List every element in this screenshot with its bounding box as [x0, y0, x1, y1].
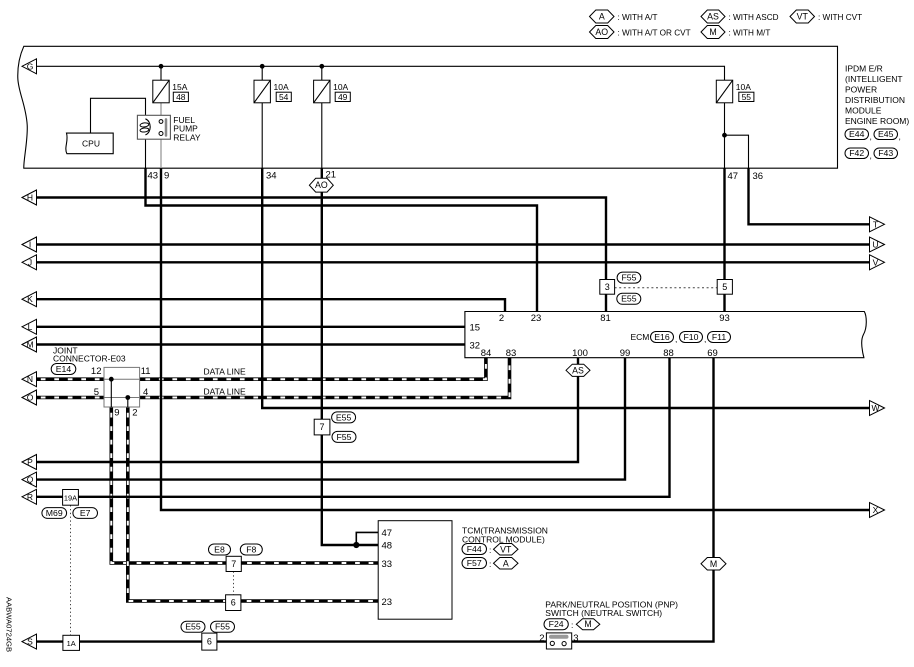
TCM pin 48 label: [382, 540, 393, 551]
splice box 6 on S wire: [202, 633, 217, 650]
wire IPDM internal bus from G arrow to fuse 55: [35, 66, 725, 80]
wire bus to fuse 49: [321, 66, 323, 80]
fuse 10A 54: [254, 80, 289, 103]
wire bus to fuse 54: [261, 66, 263, 80]
svg-text:VT: VT: [500, 544, 512, 554]
connector E14: [51, 364, 76, 375]
svg-text:K: K: [27, 294, 33, 304]
node G arrow: [22, 59, 37, 74]
wire arrow H to ECM pin 81: [35, 198, 606, 312]
condition tag AO on pin 21 wire: [309, 178, 333, 192]
node V arrow: [870, 255, 885, 270]
node R arrow: [22, 489, 37, 504]
svg-text:6: 6: [231, 598, 236, 608]
svg-text:A: A: [599, 12, 605, 22]
svg-text:84: 84: [481, 348, 492, 359]
svg-text:A: A: [503, 558, 509, 568]
wire relay coil to pin 43: [145, 135, 147, 169]
svg-text:81: 81: [600, 313, 611, 324]
legend tag AO: [590, 26, 615, 39]
svg-text:55: 55: [742, 92, 752, 102]
pin 34 label: [266, 171, 277, 182]
svg-text:X: X: [873, 505, 879, 515]
PNP switch symbol: [546, 633, 571, 649]
splice box 5: [717, 280, 732, 295]
colon after F57: [489, 559, 491, 569]
wire ECM pin 100 to arrow P: [35, 358, 578, 462]
svg-text:E55: E55: [185, 622, 201, 632]
svg-text:F11: F11: [712, 332, 726, 342]
node L arrow: [22, 319, 37, 334]
ECM pin 99 label: [620, 348, 631, 359]
connector E7: [73, 508, 98, 519]
legend tag AS: [701, 10, 725, 23]
wire ECM pin 69 to PNP switch pin 3: [572, 358, 714, 642]
svg-text:E16: E16: [654, 332, 670, 342]
condition tag M in PNP label: [576, 619, 600, 630]
connector F57: [462, 558, 487, 569]
svg-text:9: 9: [164, 171, 169, 182]
PNP switch pin 2 label: [539, 633, 544, 644]
wire fuse 49 to pin 21: [321, 103, 323, 168]
svg-text:9: 9: [114, 408, 119, 419]
wire arrow L to ECM pin 15: [35, 326, 465, 328]
node J arrow: [22, 255, 37, 270]
wire arrow K to ECM pin 2: [35, 299, 505, 311]
comma after E45: [899, 132, 901, 142]
svg-text:M: M: [26, 340, 33, 350]
svg-text:CONNECTOR-E03: CONNECTOR-E03: [53, 354, 126, 364]
pin 9 label: [164, 171, 169, 182]
legend text WITH A/T: [618, 13, 658, 22]
svg-text:M: M: [584, 619, 591, 629]
junction fuse 55 branch: [722, 133, 727, 138]
CPU box: [66, 133, 113, 154]
svg-text:32: 32: [470, 341, 481, 352]
svg-text:,: ,: [870, 151, 872, 161]
svg-text:F10: F10: [684, 332, 699, 342]
ECM pin 15 label: [470, 323, 481, 334]
svg-text:48: 48: [382, 540, 393, 551]
wire joint connector pin 2 to TCM pin 23: [128, 407, 226, 601]
wire ECM pin 88 to arrow R: [35, 358, 670, 497]
svg-text:7: 7: [231, 559, 236, 569]
svg-text:: WITH CVT: : WITH CVT: [818, 13, 862, 22]
diagram code AABWA0724GB: [5, 597, 14, 652]
svg-text:E55: E55: [336, 412, 352, 422]
svg-text:,: ,: [870, 132, 872, 142]
connector F55 above box 3: [617, 272, 641, 283]
ECM pin 83 label: [506, 348, 517, 359]
node K arrow: [22, 292, 37, 307]
svg-text:43: 43: [148, 171, 159, 182]
svg-text:DISTRIBUTION: DISTRIBUTION: [845, 95, 905, 105]
joint connector pin 12 label: [91, 366, 102, 377]
legend text WITH A/T OR CVT: [618, 28, 691, 37]
svg-text:10A: 10A: [333, 82, 348, 92]
wire ECM pin 99 to arrow Q: [35, 358, 625, 480]
DATA LINE label lower: [204, 386, 247, 396]
joint connector pin 2 label: [132, 408, 137, 419]
svg-text:CPU: CPU: [82, 139, 100, 149]
junction on bus at fuse 49: [319, 64, 324, 69]
svg-text:IPDM E/R: IPDM E/R: [845, 64, 883, 74]
svg-text:1A: 1A: [67, 639, 76, 648]
svg-text:48: 48: [176, 92, 186, 102]
svg-text:V: V: [873, 257, 879, 267]
svg-text:49: 49: [338, 92, 348, 102]
svg-text:: WITH A/T: : WITH A/T: [618, 13, 658, 22]
svg-text:E8: E8: [214, 544, 225, 554]
svg-text:,: ,: [704, 334, 706, 344]
fuse 10A number box 55: [739, 92, 754, 102]
TCM module box: [378, 521, 452, 620]
ECM pin 100 label: [572, 348, 588, 359]
wire IPDM pin 36 to arrow T: [749, 168, 871, 224]
condition tag M on pin 69 wire: [701, 558, 726, 571]
svg-text::: :: [489, 559, 491, 569]
wire joint connector pin 4 to pin 2 internal: [127, 398, 129, 408]
svg-text:: WITH A/T OR CVT: : WITH A/T OR CVT: [618, 28, 691, 37]
dotted link 19A to 1A: [70, 505, 72, 635]
svg-text:MODULE: MODULE: [845, 106, 882, 116]
colon after F44: [489, 545, 491, 555]
wire DATA LINE from arrow O to joint connector: [35, 396, 104, 400]
svg-text:36: 36: [753, 171, 764, 182]
node X arrow: [870, 503, 885, 518]
dotted link box 3 to box 5: [615, 287, 718, 289]
svg-text:E7: E7: [80, 508, 91, 518]
comma after E44: [870, 132, 872, 142]
svg-text:11: 11: [141, 366, 151, 377]
svg-text:T: T: [873, 219, 878, 229]
fuse 10A 49: [314, 80, 349, 103]
ECM pin 88 label: [663, 348, 674, 359]
node P arrow: [22, 455, 37, 470]
connector box 1A: [63, 635, 80, 650]
node I arrow: [22, 237, 37, 252]
svg-text:93: 93: [719, 313, 730, 324]
wire arrow I to arrow U: [35, 243, 871, 245]
connector E55 above box 7: [332, 412, 356, 423]
wire joint connector internal bus O: [104, 397, 140, 399]
joint connector pin 9 label: [114, 408, 119, 419]
wire DATA LINE joint connector to ECM pin 83: [140, 358, 510, 398]
ECM pin 81 label: [600, 313, 611, 324]
connector E55 above box 6: [181, 621, 205, 632]
dotted link box 7 to box 6: [233, 572, 235, 595]
svg-text:E44: E44: [849, 129, 865, 139]
IPDM E/R module box: [18, 46, 838, 168]
wire branch to pin 36: [725, 135, 749, 168]
TCM pin 47 label: [382, 528, 393, 539]
wire fuse 48 to relay contact to pin 9 (gray): [160, 103, 162, 168]
wire arrow J to arrow V: [35, 261, 871, 263]
svg-text:3: 3: [605, 282, 610, 292]
svg-text:54: 54: [279, 92, 289, 102]
junction on bus at fuse 48: [159, 64, 164, 69]
node S arrow: [22, 634, 37, 649]
condition tag AS on pin 100 wire: [566, 364, 590, 376]
connector E55 below box 3: [617, 293, 641, 304]
svg-text:M69: M69: [46, 508, 63, 518]
node T arrow: [870, 217, 885, 232]
svg-text:2: 2: [132, 408, 137, 419]
fuse 15A 48: [153, 80, 188, 103]
wire joint connector pin 9 to TCM pin 33: [111, 407, 226, 563]
wire IPDM pin 43 to ECM pin 23: [146, 168, 538, 311]
svg-text:6: 6: [207, 637, 212, 647]
ECM pin 69 label: [707, 348, 718, 359]
svg-text:R: R: [27, 492, 33, 502]
joint connector pin 11 label: [141, 366, 151, 377]
wire DATA LINE joint connector to ECM pin 84: [140, 358, 486, 380]
svg-text:33: 33: [382, 559, 393, 570]
node Q arrow: [22, 472, 37, 487]
svg-text:E55: E55: [621, 294, 637, 304]
svg-text:F55: F55: [621, 273, 636, 283]
wire relay coil top lead: [145, 115, 147, 119]
connector F11: [708, 332, 731, 343]
fuse 10A 55: [716, 80, 751, 103]
wire TCM pin 33 segment after box 7: [241, 561, 378, 565]
legend text WITH ASCD: [729, 13, 779, 22]
wire arrow S to PNP switch pin 2: [35, 640, 546, 642]
IPDM E/R label text: [845, 64, 909, 127]
svg-text:AABWA0724GB: AABWA0724GB: [5, 597, 14, 652]
svg-text:F44: F44: [467, 544, 482, 554]
svg-text:DATA LINE: DATA LINE: [204, 366, 247, 376]
legend text WITH CVT: [818, 13, 862, 22]
connector M69: [42, 508, 67, 519]
node U arrow: [870, 237, 885, 252]
svg-text:G: G: [27, 61, 34, 71]
wire IPDM pin 34 to arrow W: [262, 168, 870, 408]
node W arrow: [870, 401, 885, 416]
fuse 15A number box 48: [173, 92, 188, 102]
svg-text:Q: Q: [27, 475, 34, 485]
svg-text:O: O: [27, 393, 34, 403]
svg-text:12: 12: [91, 366, 102, 377]
node N arrow: [22, 372, 37, 387]
junction on bus at fuse 54: [260, 64, 265, 69]
comma after E16: [675, 334, 677, 344]
svg-text:E14: E14: [56, 364, 72, 374]
svg-text:34: 34: [266, 171, 277, 182]
fuse 10A number box 54: [276, 92, 291, 102]
fusible link box 19A: [63, 490, 79, 506]
svg-text:E45: E45: [878, 129, 894, 139]
DATA LINE label upper: [204, 366, 247, 376]
connector F42: [845, 148, 869, 159]
node O arrow: [22, 390, 37, 405]
svg-text:SWITCH (NEUTRAL SWITCH): SWITCH (NEUTRAL SWITCH): [545, 608, 662, 618]
joint connector E03 box: [104, 367, 140, 407]
svg-text:J: J: [28, 257, 32, 267]
comma after F10: [704, 334, 706, 344]
TCM pin 33 label: [382, 559, 393, 570]
svg-text:47: 47: [382, 528, 393, 539]
pin 43 label: [148, 171, 159, 182]
ECM pin 2 label: [499, 313, 504, 324]
svg-text:W: W: [871, 403, 879, 413]
wire fuse 54 to pin 34: [261, 103, 263, 168]
svg-text:: WITH M/T: : WITH M/T: [729, 28, 771, 37]
condition tag A: [494, 558, 519, 570]
svg-text:47: 47: [728, 171, 739, 182]
svg-text:2: 2: [539, 633, 544, 644]
TCM label text: [462, 526, 548, 545]
svg-text:10A: 10A: [274, 82, 289, 92]
svg-text:U: U: [872, 240, 878, 250]
splice box 3: [600, 280, 615, 295]
svg-text:15A: 15A: [172, 82, 187, 92]
svg-text:F55: F55: [337, 432, 352, 442]
joint connector pin 5 label: [94, 387, 99, 398]
connector E8: [209, 544, 231, 555]
comma after F42: [870, 151, 872, 161]
svg-text:100: 100: [572, 348, 588, 359]
wire arrow M to ECM pin 32: [35, 343, 465, 345]
colon after F24: [571, 620, 573, 630]
svg-text:I: I: [29, 240, 31, 250]
svg-text:DATA LINE: DATA LINE: [204, 386, 247, 396]
svg-text:F55: F55: [215, 622, 230, 632]
ECM label: [631, 332, 650, 342]
svg-text:69: 69: [707, 348, 718, 359]
svg-text:23: 23: [382, 597, 393, 608]
svg-text::: :: [489, 545, 491, 555]
svg-text:83: 83: [506, 348, 517, 359]
connector F10: [680, 332, 703, 343]
svg-text:S: S: [27, 637, 33, 647]
wire IPDM pin 9 to arrow X: [161, 168, 871, 510]
svg-text:88: 88: [663, 348, 674, 359]
svg-text:M: M: [709, 27, 716, 37]
svg-text:ECM: ECM: [631, 332, 650, 342]
ECM module box: [465, 312, 866, 358]
connector F43: [874, 148, 898, 159]
PNP switch pin 3 label: [573, 633, 578, 644]
wire joint connector internal bus N: [104, 378, 140, 380]
TCM pin 23 label: [382, 597, 393, 608]
condition tag VT: [494, 544, 519, 556]
ECM pin 32 label: [470, 341, 481, 352]
svg-text:19A: 19A: [64, 493, 77, 502]
wire TCM pin 23 segment after box 6: [241, 599, 378, 603]
svg-text:F24: F24: [549, 619, 564, 629]
svg-text:ENGINE ROOM): ENGINE ROOM): [845, 116, 909, 126]
connector E45: [874, 129, 898, 140]
svg-text:4: 4: [143, 387, 148, 398]
node H arrow: [22, 190, 37, 205]
ECM pin 93 label: [719, 313, 730, 324]
legend tag M: [701, 26, 725, 39]
svg-text:L: L: [28, 322, 33, 332]
legend tag VT: [790, 10, 815, 23]
ECM pin 23 label: [531, 313, 542, 324]
splice box 7 on pin 21 wire: [314, 419, 330, 435]
splice box 6 on TCM 23 wire: [226, 595, 241, 611]
svg-text:,: ,: [675, 334, 677, 344]
wire IPDM pin 47 to ECM pin 93: [723, 168, 725, 311]
connector F8: [240, 544, 262, 555]
wire DATA LINE from arrow N to joint connector: [35, 377, 104, 381]
pin 36 label: [753, 171, 764, 182]
svg-text:AS: AS: [707, 12, 719, 22]
svg-text:3: 3: [573, 633, 578, 644]
svg-text:23: 23: [531, 313, 542, 324]
svg-text:F57: F57: [467, 558, 482, 568]
connector F44: [462, 544, 487, 555]
svg-text:(INTELLIGENT: (INTELLIGENT: [845, 74, 903, 84]
wire joint connector pin 12 to pin 9 internal: [110, 379, 112, 407]
svg-text:N: N: [27, 374, 33, 384]
svg-text:F42: F42: [849, 148, 864, 158]
svg-text::: :: [571, 620, 573, 630]
svg-text:M: M: [710, 559, 717, 569]
wire IPDM pin 21 to TCM pin 48: [322, 168, 378, 545]
svg-text:AO: AO: [595, 27, 608, 37]
connector F55 above box 6: [211, 621, 235, 632]
svg-text:99: 99: [620, 348, 631, 359]
svg-text:F8: F8: [246, 544, 256, 554]
svg-text:,: ,: [899, 132, 901, 142]
fuse 10A number box 49: [335, 92, 350, 102]
wire branch to TCM pin 47: [356, 532, 378, 545]
node M arrow: [22, 337, 37, 352]
legend tag A: [590, 10, 615, 23]
svg-text:P: P: [27, 457, 33, 467]
svg-text:5: 5: [94, 387, 99, 398]
junction joint connector pin 9: [109, 377, 114, 382]
wire fuse 55 to pin 47: [724, 103, 726, 168]
svg-text:RELAY: RELAY: [173, 132, 201, 142]
svg-text:VT: VT: [797, 12, 809, 22]
svg-text:H: H: [27, 193, 33, 203]
svg-text:15: 15: [470, 323, 481, 334]
ECM pin 84 label: [481, 348, 492, 359]
svg-text:F43: F43: [878, 148, 893, 158]
joint connector pin 4 label: [143, 387, 148, 398]
splice box 7 on TCM 33 wire: [226, 556, 241, 571]
svg-text:7: 7: [320, 422, 325, 432]
svg-text:: WITH ASCD: : WITH ASCD: [729, 13, 779, 22]
connector F55 below box 7: [332, 431, 356, 442]
svg-text:AS: AS: [572, 365, 584, 375]
svg-text:POWER: POWER: [845, 85, 877, 95]
pin 21 label: [326, 170, 337, 181]
joint connector label: [53, 346, 126, 364]
pin 47 label: [728, 171, 739, 182]
svg-text:10A: 10A: [736, 82, 751, 92]
svg-text:2: 2: [499, 313, 504, 324]
legend text WITH M/T: [729, 28, 771, 37]
wire bus to fuse 48: [160, 66, 162, 80]
connector E44: [845, 129, 869, 140]
svg-text:AO: AO: [315, 180, 328, 190]
connector E16: [651, 332, 674, 343]
PNP switch label text: [545, 600, 678, 618]
relay FUEL PUMP RELAY: [137, 115, 200, 143]
svg-text:5: 5: [722, 282, 727, 292]
connector F24: [544, 619, 568, 630]
junction joint connector pin 2: [125, 395, 130, 400]
wire CPU to fuel pump relay coil: [91, 98, 146, 133]
junction TCM pin 47 branch: [353, 542, 359, 548]
